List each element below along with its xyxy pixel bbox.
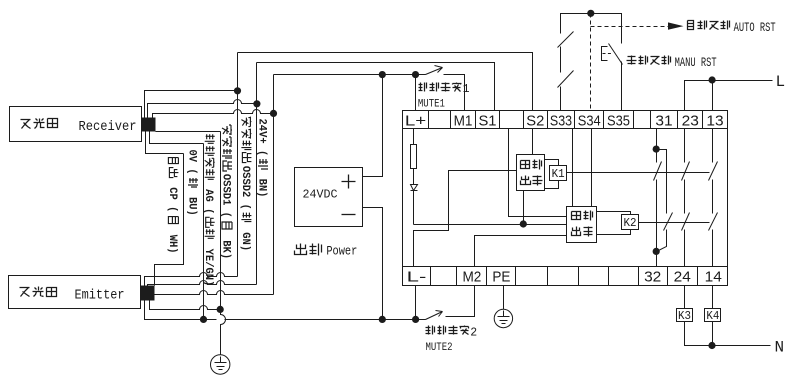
svg-text:Emitter: Emitter <box>75 289 125 304</box>
svg-text:N: N <box>775 339 785 357</box>
svg-text:MANU RST: MANU RST <box>675 56 717 70</box>
svg-text:S33: S33 <box>550 113 572 130</box>
wire emitter AG row with hump over 0V bus <box>150 301 221 310</box>
node 24VDC - on 0V rail <box>379 316 386 323</box>
svg-text:MUTE2: MUTE2 <box>426 342 453 354</box>
svg-text:BU): BU) <box>186 191 198 216</box>
wire 23-24 column with contacts K1 K2 <box>682 129 690 267</box>
label 安全输出OSSD2 (绿 GN) <box>239 117 252 252</box>
switch MUTE1 抑制开关1 <box>426 66 465 111</box>
node 31-32 bottom junction <box>653 248 660 255</box>
svg-text:PE: PE <box>492 269 510 286</box>
label 0V (蓝 BU) <box>186 150 199 216</box>
svg-text:OSSD2 (: OSSD2 ( <box>239 166 251 210</box>
wire to terminal 32 <box>656 252 658 267</box>
wire OSSD1 top rail to S2 <box>238 53 533 111</box>
wire 24V+ top rail <box>274 74 426 76</box>
svg-text:YE/GN): YE/GN) <box>202 242 214 286</box>
svg-text:M1: M1 <box>454 113 473 130</box>
wire receiver OSSD1 fan (stub up + horizontal to bus) <box>145 91 238 118</box>
svg-text:S35: S35 <box>607 113 630 130</box>
wire receiver CP fan <box>146 132 184 154</box>
svg-text:24VDC: 24VDC <box>303 188 338 202</box>
svg-text:31: 31 <box>655 113 672 130</box>
ground earth symbol below emitter <box>211 355 230 374</box>
node S34 reset junction <box>587 10 594 17</box>
node 24V+ to power supply <box>379 71 386 78</box>
svg-text:K4: K4 <box>706 310 719 323</box>
wire 24VDC + to 24V+ rail <box>363 75 383 177</box>
relay coil K1 <box>545 160 567 189</box>
wire 24V+ bus 24V+ (棕 BN) <box>273 75 275 295</box>
wire 24 to K3 <box>684 286 686 309</box>
wire logic unit 1 to supply node <box>523 191 525 225</box>
svg-text:CP (: CP ( <box>166 181 178 213</box>
pushbutton manual reset on S35 <box>602 44 623 111</box>
wire 31 column with feedback contacts <box>656 129 658 150</box>
wire S2 to logic unit 1 <box>532 129 534 155</box>
svg-text:L-: L- <box>407 269 427 286</box>
node L- on 0V rail <box>412 316 419 323</box>
wire K4 to N line <box>712 322 714 346</box>
controller outer box <box>403 111 728 286</box>
wire emitter OSSD2 row with humps <box>148 281 257 286</box>
wire receiver 24V+ fan with humps over OSSD1 and OSSD2 buses <box>153 110 274 118</box>
svg-text:Power: Power <box>326 245 357 259</box>
wire receiver 0V fan <box>150 132 204 144</box>
label 辅助接地 AG (黄绿 YE/GN) <box>202 134 215 286</box>
wire K1 actuation line <box>567 172 710 174</box>
terminal labels top row <box>405 113 724 130</box>
contact K2 NC in 31-32 parallel path <box>657 150 673 252</box>
wire receiver AG fan <box>156 131 221 133</box>
wire 0V bus 0V (蓝 BU) <box>203 144 205 320</box>
relay coil K3 <box>677 309 693 324</box>
wire OSSD1 bus 安全输出OSSD1 <box>237 53 239 277</box>
node 31 top junction <box>653 146 660 153</box>
node L+ line to logic unit 2 <box>520 220 527 227</box>
wire L- drop to 0V rail <box>415 286 417 320</box>
terminal labels bottom row <box>407 269 722 286</box>
receiver box 受光器 Receiver <box>10 107 142 142</box>
wire OSSD2 bus 安全输出OSSD2 <box>256 63 258 285</box>
node OSSD1 junction <box>234 87 241 94</box>
label 安全输出OSSD1 (黑 BK) <box>220 125 233 259</box>
receiver connector (black block) <box>142 118 156 132</box>
terminal row top cells <box>403 111 728 129</box>
node K4 on N line <box>708 342 715 349</box>
svg-text:L: L <box>776 73 786 91</box>
svg-text:24: 24 <box>674 269 691 286</box>
relay coil K2 <box>597 212 639 235</box>
wire emitter 24V+ row with humps <box>155 291 274 295</box>
wire L supply line <box>685 81 773 111</box>
svg-text:24V+ (: 24V+ ( <box>256 119 268 157</box>
svg-text:BK): BK) <box>220 234 232 259</box>
wire receiver OSSD2 fan with hump over OSSD1 bus <box>148 100 257 118</box>
wire 14 to K4 <box>712 286 714 309</box>
wire K3 to N line <box>685 322 771 346</box>
contact K1 NC in 31-32 path <box>654 150 662 252</box>
label 自动复位 AUTO RST <box>688 21 776 36</box>
emitter box 发光器 Emitter <box>9 276 141 309</box>
svg-text:S34: S34 <box>578 113 601 130</box>
relay coil K4 <box>705 309 721 324</box>
wire AG bus 辅助接地 AG <box>220 132 222 310</box>
wire AG hook over rail <box>221 310 226 355</box>
wire L+ to logic units <box>414 224 524 226</box>
svg-text:K2: K2 <box>624 217 637 230</box>
wire OSSD2 top rail to S1 <box>257 63 495 111</box>
node 24V+ to L+ <box>412 71 419 78</box>
ground PE earth symbol <box>494 286 512 328</box>
wire 0V bottom rail from emitter <box>145 301 204 320</box>
svg-text:13: 13 <box>706 113 723 130</box>
wire S34 to logic unit 2 <box>591 129 593 207</box>
wire 13-14 column with contacts K1 K2 <box>709 129 718 267</box>
svg-text:BN): BN) <box>256 172 268 197</box>
wire 0V rail continuing right (AG bus hooks over) <box>204 319 217 321</box>
svg-text:K1: K1 <box>552 168 565 181</box>
label 24V+ (棕 BN) <box>256 119 269 198</box>
terminal row bottom cells <box>403 267 728 286</box>
svg-text:Receiver: Receiver <box>79 120 137 135</box>
wire mute-select column to logic unit 2 <box>509 129 567 217</box>
logic unit 1 逻辑单元 <box>517 155 545 191</box>
svg-text:L+: L+ <box>405 113 427 130</box>
wire S33 to logic unit 2 <box>572 129 574 207</box>
wire reset top bar <box>561 14 622 44</box>
power supply 24VDC box <box>295 168 363 227</box>
wire M2 to logic unit 2 <box>475 236 567 267</box>
wire 24VDC - to 0V rail <box>363 208 383 320</box>
wire auto-reset dashed arrow line <box>591 26 669 28</box>
node 24V+ junction <box>270 110 277 117</box>
wire CP bus 同步 CP (白 WH) <box>155 154 184 286</box>
svg-text:2: 2 <box>470 326 477 339</box>
label 电源 Power <box>295 244 358 259</box>
svg-text:23: 23 <box>682 113 699 130</box>
svg-text:S1: S1 <box>478 113 496 130</box>
wire K2 actuation line <box>639 222 710 224</box>
svg-text:0V (: 0V ( <box>186 150 198 175</box>
svg-text:MUTE1: MUTE1 <box>418 99 445 111</box>
svg-text:1: 1 <box>463 83 470 96</box>
node L to 13 <box>709 76 716 83</box>
contact S33 upper <box>558 32 574 73</box>
label 抑制开关1 <box>419 83 470 97</box>
wire S34 dashed monitor line <box>590 14 592 111</box>
label 同步 CP (白 WH) <box>166 158 179 254</box>
label 手动复位 MANU RST <box>627 56 717 71</box>
svg-text:M2: M2 <box>462 269 481 286</box>
node AG junction at emitter <box>217 306 224 313</box>
wire L- to logic unit 1 <box>414 171 517 267</box>
node 0V rail junction <box>200 316 207 323</box>
wire L+ drop <box>415 75 417 111</box>
svg-text:S2: S2 <box>526 113 544 130</box>
diode clamp on L+ line <box>411 185 418 225</box>
svg-text:OSSD1 (: OSSD1 ( <box>220 174 232 218</box>
arrowhead auto-reset <box>668 22 684 29</box>
svg-text:AUTO RST: AUTO RST <box>734 21 776 35</box>
svg-text:K3: K3 <box>678 310 691 323</box>
svg-text:WH): WH) <box>166 228 178 253</box>
contact S33 lower <box>558 71 574 111</box>
fuse on L+ line <box>411 129 417 185</box>
svg-text:32: 32 <box>644 269 661 286</box>
wire emitter OSSD1 row with humps <box>145 273 238 286</box>
emitter connector (black block) <box>141 286 155 301</box>
label 抑制开关2 <box>426 326 478 340</box>
switch MUTE2 抑制开关2 <box>426 286 475 320</box>
logic unit 2 逻辑单元 <box>567 207 597 243</box>
svg-text:14: 14 <box>705 269 722 286</box>
svg-text:GN): GN) <box>239 226 251 251</box>
node OSSD2 junction <box>253 100 260 107</box>
svg-text:AG (: AG ( <box>202 183 214 215</box>
